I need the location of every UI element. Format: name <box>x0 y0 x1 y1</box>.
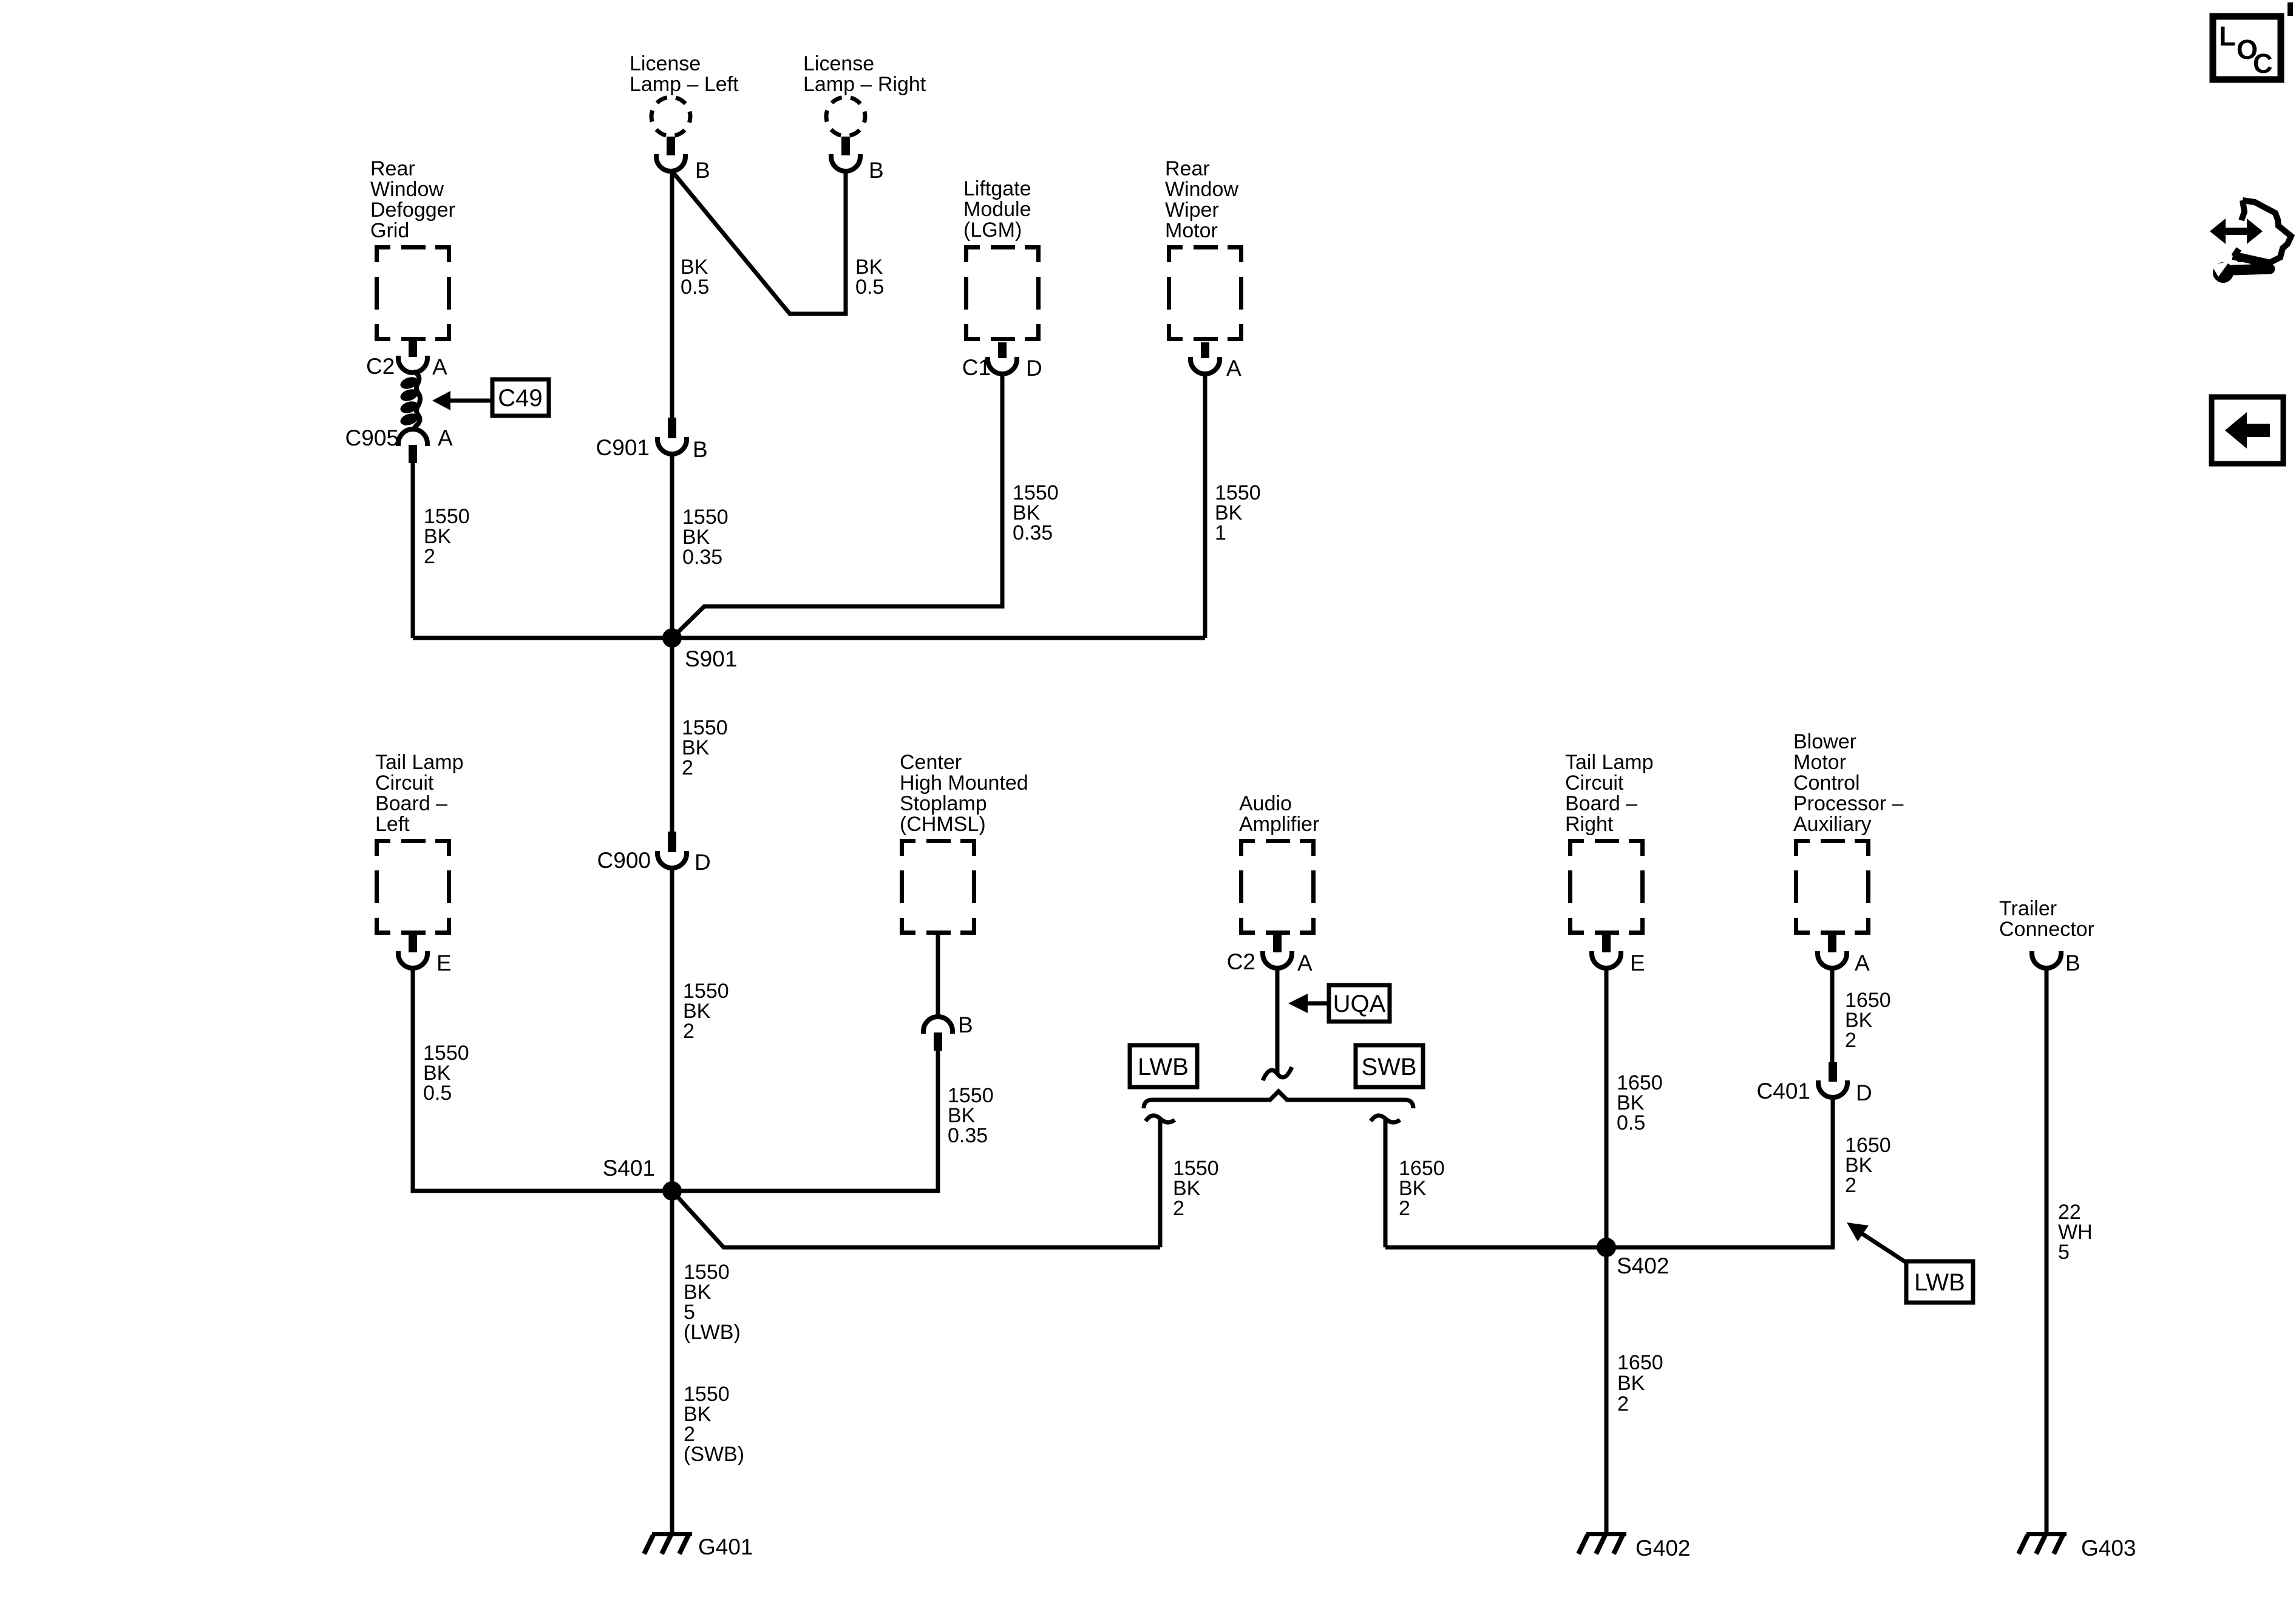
svg-text:Control: Control <box>1793 771 1860 795</box>
svg-text:2: 2 <box>682 756 693 779</box>
wire CHMSL to connector <box>936 935 940 1017</box>
svg-text:Lamp – Right: Lamp – Right <box>803 73 926 96</box>
svg-text:Auxiliary: Auxiliary <box>1793 813 1871 836</box>
svg-text:0.35: 0.35 <box>948 1124 988 1147</box>
svg-text:2: 2 <box>1617 1392 1629 1415</box>
wire wiper to S901, 1550 BK 1 <box>1203 374 1207 638</box>
svg-text:(LGM): (LGM) <box>963 219 1022 242</box>
svg-text:E: E <box>1630 951 1645 975</box>
svg-text:D: D <box>1026 356 1042 381</box>
svg-text:LWB: LWB <box>1138 1054 1189 1080</box>
svg-text:C: C <box>2253 48 2273 79</box>
svg-text:Processor –: Processor – <box>1793 792 1903 815</box>
hook + LWB wire 1550 BK 2 <box>1146 1116 1175 1122</box>
connector pin E <box>1602 935 1611 952</box>
svg-text:High Mounted: High Mounted <box>900 771 1028 795</box>
svg-text:B: B <box>695 158 710 183</box>
svg-text:C900: C900 <box>597 848 651 873</box>
svg-text:A: A <box>438 425 453 450</box>
svg-text:1: 1 <box>1215 521 1226 544</box>
wire amp down <box>1275 968 1280 1073</box>
svg-text:2: 2 <box>683 1020 695 1043</box>
svg-text:Board –: Board – <box>1565 792 1637 815</box>
ground G402 <box>1586 1532 1626 1536</box>
svg-text:0.35: 0.35 <box>1013 521 1053 544</box>
UQA callout box and arrow <box>1288 994 1308 1013</box>
svg-text:B: B <box>693 437 708 462</box>
adjust/service hand-wrench icon <box>2210 200 2291 283</box>
svg-text:(CHMSL): (CHMSL) <box>900 813 986 836</box>
svg-text:Trailer: Trailer <box>1999 897 2057 920</box>
hook + SWB wire 1650 BK 2 <box>1371 1116 1400 1122</box>
svg-text:Rear: Rear <box>370 157 415 180</box>
connector C901 pin B <box>668 418 676 438</box>
svg-text:Window: Window <box>1165 178 1238 201</box>
page edge mark <box>2288 2 2293 16</box>
license lamp right connector pin B <box>841 137 850 155</box>
svg-text:1650: 1650 <box>1617 1351 1663 1374</box>
svg-text:S401: S401 <box>603 1156 655 1181</box>
option brace LWB/SWB <box>1144 1091 1413 1108</box>
wire blower to C401, 1650 BK 2 <box>1830 968 1835 1062</box>
lower bus SWB to blower corner <box>1385 1246 1835 1250</box>
wire trailer to G403, 22 WH 5 <box>2045 968 2049 1532</box>
svg-text:(LWB): (LWB) <box>684 1321 741 1344</box>
svg-text:Amplifier: Amplifier <box>1239 813 1319 836</box>
connector pin E <box>409 935 417 952</box>
CHMSL connector pin B <box>934 1032 942 1051</box>
connector C900 pin D <box>668 832 676 852</box>
wire C401 to bus, 1650 BK 2 <box>1831 1097 1835 1247</box>
svg-text:Right: Right <box>1565 813 1614 836</box>
connector C1 pin D <box>998 342 1007 358</box>
svg-text:0.35: 0.35 <box>682 546 722 569</box>
svg-text:Window: Window <box>370 178 444 201</box>
svg-text:License: License <box>803 52 874 75</box>
svg-text:Defogger: Defogger <box>370 198 455 222</box>
svg-text:0.5: 0.5 <box>855 276 884 299</box>
coil C49 (defogger grid pigtail) <box>399 371 420 430</box>
node S901 <box>662 628 682 648</box>
svg-text:D: D <box>695 850 711 875</box>
connector pin A <box>1201 342 1209 358</box>
svg-text:G403: G403 <box>2081 1536 2136 1561</box>
LWB callout box with arrow <box>1847 1222 1869 1241</box>
node S402 <box>1597 1238 1616 1257</box>
C49 callout box and arrow <box>432 391 450 410</box>
LOC legend box <box>2213 16 2281 80</box>
svg-text:SWB: SWB <box>1361 1054 1416 1080</box>
svg-text:2: 2 <box>424 545 435 568</box>
wire CHMSL to S401, 1550 BK 0.35 <box>672 1051 938 1191</box>
svg-text:License: License <box>630 52 701 75</box>
wire C901 to S901, 1550 BK 0.35 <box>670 454 674 638</box>
wire S401 to lower bus <box>673 1192 1160 1247</box>
connector pin A <box>1828 935 1836 952</box>
svg-text:0.5: 0.5 <box>681 276 709 299</box>
svg-text:L: L <box>2219 21 2236 52</box>
svg-text:Tail Lamp: Tail Lamp <box>1565 751 1654 774</box>
back arrow box <box>2212 397 2283 464</box>
svg-text:Board –: Board – <box>375 792 447 815</box>
svg-text:BK: BK <box>1617 1372 1645 1395</box>
svg-text:Motor: Motor <box>1165 219 1218 242</box>
svg-text:Lamp – Left: Lamp – Left <box>630 73 739 96</box>
svg-text:C901: C901 <box>596 435 650 460</box>
connector C401 pin D <box>1829 1062 1837 1082</box>
svg-text:2: 2 <box>1845 1029 1856 1052</box>
svg-text:Stoplamp: Stoplamp <box>900 792 987 815</box>
svg-text:Rear: Rear <box>1165 157 1210 180</box>
ground G401 <box>652 1532 692 1536</box>
svg-text:G401: G401 <box>698 1534 753 1559</box>
wire S402 to G402, 1650 BK 2 <box>1605 1247 1609 1532</box>
wire tail right to S402, 1650 BK 0.5 <box>1605 968 1609 1247</box>
svg-text:C905: C905 <box>345 425 399 450</box>
node S401 <box>662 1181 682 1201</box>
wire LGM to S901, 1550 BK 0.35 <box>673 374 1002 637</box>
wire right lamp joining left at B, BK 0.5 <box>672 171 846 314</box>
svg-text:LWB: LWB <box>1914 1269 1965 1296</box>
LWB option box <box>1130 1045 1197 1087</box>
connector C2 pin A <box>409 341 417 357</box>
svg-text:A: A <box>1297 951 1313 975</box>
svg-text:0.5: 0.5 <box>1617 1111 1645 1134</box>
svg-text:2: 2 <box>1399 1197 1410 1220</box>
svg-text:D: D <box>1856 1080 1872 1105</box>
svg-text:C1: C1 <box>962 355 991 380</box>
svg-text:Liftgate: Liftgate <box>963 177 1031 200</box>
svg-text:S402: S402 <box>1617 1253 1669 1278</box>
svg-text:A: A <box>432 354 447 379</box>
svg-text:A: A <box>1226 356 1241 381</box>
wire tail left to S401, 1550 BK 0.5 <box>413 968 672 1191</box>
svg-text:5: 5 <box>2058 1241 2070 1264</box>
svg-text:(SWB): (SWB) <box>684 1443 744 1466</box>
svg-text:2: 2 <box>1173 1197 1184 1220</box>
svg-text:Center: Center <box>900 751 962 774</box>
svg-text:S901: S901 <box>685 646 737 671</box>
svg-text:Left: Left <box>375 813 410 836</box>
svg-text:Audio: Audio <box>1239 792 1292 815</box>
wire left lamp down, BK 0.5 <box>670 171 674 418</box>
svg-text:0.5: 0.5 <box>423 1082 452 1105</box>
svg-text:2: 2 <box>1845 1174 1856 1197</box>
svg-text:G402: G402 <box>1635 1536 1691 1561</box>
svg-text:Tail Lamp: Tail Lamp <box>375 751 464 774</box>
wire defogger to S901, 1550 BK 2 <box>411 463 415 638</box>
svg-text:Circuit: Circuit <box>375 771 434 795</box>
svg-text:UQA: UQA <box>1333 991 1386 1017</box>
svg-text:B: B <box>2065 951 2080 975</box>
svg-text:Grid: Grid <box>370 219 409 242</box>
wire S901 to C900, 1550 BK 2 <box>670 638 674 832</box>
svg-text:Blower: Blower <box>1793 730 1856 753</box>
wire C900 to S401, 1550 BK 2 <box>670 868 674 1191</box>
SWB option box <box>1356 1045 1423 1087</box>
svg-text:B: B <box>958 1012 973 1037</box>
svg-text:A: A <box>1855 951 1870 975</box>
svg-text:C49: C49 <box>498 385 542 412</box>
svg-text:C401: C401 <box>1757 1079 1810 1103</box>
svg-text:B: B <box>869 158 884 183</box>
connector C2 pin A <box>1273 935 1282 952</box>
break symbol on amp wire <box>1263 1067 1292 1080</box>
license lamp left connector pin B <box>667 137 675 155</box>
svg-text:Circuit: Circuit <box>1565 771 1624 795</box>
svg-text:Module: Module <box>963 198 1031 221</box>
svg-text:Motor: Motor <box>1793 751 1846 774</box>
ground G403 <box>2026 1532 2067 1536</box>
splice S901 bus wire <box>413 636 1205 640</box>
connector C905 pin A <box>409 445 417 463</box>
svg-text:E: E <box>436 951 452 975</box>
svg-text:Wiper: Wiper <box>1165 198 1219 222</box>
svg-text:C2: C2 <box>366 354 395 379</box>
svg-text:Connector: Connector <box>1999 918 2094 941</box>
wire S401 to G401, 1550 BK 5 (LWB) / 1550 BK 2 (SWB) <box>670 1191 674 1532</box>
svg-text:C2: C2 <box>1227 949 1255 974</box>
